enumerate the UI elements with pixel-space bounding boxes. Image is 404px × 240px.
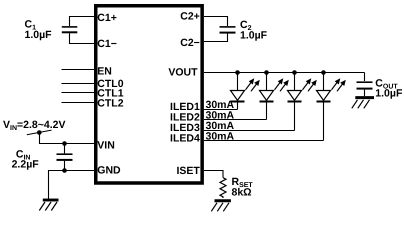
capacitor C2 [220, 27, 236, 33]
svg-text:CTL2: CTL2 [97, 97, 123, 109]
wire ILED3 [204, 130, 295, 132]
svg-text:C1−: C1− [97, 38, 117, 50]
wire CTL0 [62, 83, 95, 85]
wire ILED4 [204, 140, 324, 142]
svg-text:VOUT: VOUT [168, 66, 198, 78]
capacitor C1 [62, 27, 78, 32]
label C2 value [240, 19, 268, 42]
label C1 value [25, 19, 53, 42]
LED D2 [260, 73, 289, 120]
svg-text:30mA: 30mA [206, 131, 235, 143]
wire VIN [40, 133, 95, 144]
svg-text:GND: GND [97, 164, 121, 176]
label CIN value [12, 149, 40, 171]
wire GND [49, 171, 95, 199]
capacitor CIN [57, 144, 73, 171]
wire C2- [204, 33, 228, 41]
svg-text:1.0µF: 1.0µF [375, 88, 403, 100]
capacitor COUT [357, 73, 373, 97]
wire ILED2 [204, 119, 267, 121]
wire C1+ [70, 17, 95, 27]
IC U1 (charge-pump LED driver) [96, 6, 202, 183]
wire C2+ [204, 17, 228, 27]
wire EN [62, 69, 95, 71]
wire ISET [204, 171, 223, 178]
label COUT value [375, 78, 403, 100]
LED D1 [231, 73, 260, 110]
LED D3 [288, 73, 317, 131]
wire C1- [70, 33, 95, 43]
svg-text:ILED4: ILED4 [170, 132, 200, 144]
svg-text:1.0µF: 1.0µF [240, 30, 268, 42]
svg-text:C2+: C2+ [180, 11, 200, 23]
ground (input) [39, 200, 58, 211]
wire VOUT [204, 72, 365, 74]
svg-text:ISET: ISET [176, 165, 200, 177]
svg-text:EN: EN [97, 66, 112, 78]
node VIN terminal [27, 130, 52, 135]
node LED2 anode [264, 70, 269, 75]
svg-text:C2−: C2− [180, 37, 200, 49]
ground (RSET) [211, 201, 231, 212]
wire ILED1 [204, 109, 238, 111]
svg-text:C1+: C1+ [97, 12, 117, 24]
svg-text:2.2µF: 2.2µF [12, 159, 40, 171]
node VIN-CIN junction [62, 141, 67, 146]
ground (COUT) [352, 98, 374, 109]
label RSET value [232, 176, 254, 199]
svg-text:1.0µF: 1.0µF [25, 29, 53, 41]
wire CTL1 [62, 92, 95, 94]
svg-text:VIN: VIN [97, 140, 115, 152]
node LED1 anode [235, 70, 240, 75]
wire CTL2 [62, 102, 95, 104]
node LED4 anode [321, 70, 326, 75]
node LED3 anode [292, 70, 297, 75]
svg-text:8kΩ: 8kΩ [232, 187, 252, 199]
LED D4 [317, 73, 346, 141]
node GND-CIN junction [62, 168, 67, 173]
resistor RSET [220, 178, 226, 198]
